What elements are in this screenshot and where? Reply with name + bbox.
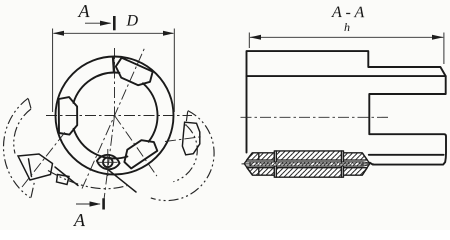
cone nut left upper band [247,153,275,160]
washer right lower band [344,168,368,176]
centerline lug C diagonal [115,116,157,177]
prong step line [369,154,444,156]
centerline through pin to lower tick [103,116,114,207]
phantom segment left inner arc [14,109,31,154]
pin centermark horizontal [98,161,118,163]
h extension right [443,33,445,65]
arrowhead D right [163,31,174,36]
screw core line extensions [246,162,369,166]
cone nut left lower band [247,168,274,176]
pin centermark vertical [107,149,109,176]
dimension line h [250,36,443,38]
pin boss almond lower arc [97,161,120,169]
thread segment lug C (lower right) [124,140,157,168]
bore edge line [247,75,446,77]
screw core [250,162,363,166]
centerline lug A diagonal [82,49,144,189]
centerline vertical (section trace upper) [114,48,116,116]
extension line left [52,29,54,113]
section tick top [113,16,116,30]
section arrow top [85,22,111,24]
phantom segment right inner arc [173,126,197,182]
pin boss almond upper arc [97,155,120,163]
phantom right end line top [186,111,188,126]
screw axis centerline [242,163,375,165]
h extension left [248,33,250,49]
section view centerline [241,116,390,118]
svg-text:A: A [77,1,90,21]
slit cut at top [113,57,114,74]
svg-text:D: D [125,12,138,29]
sleeve lower band [276,168,341,178]
phantom left lug centerline [22,131,66,187]
section body outline [247,51,447,165]
sleeve right face [342,151,344,177]
arrowhead D left [53,31,64,36]
inner bore arc 1 [73,73,119,103]
washer divider left [258,153,260,175]
inner bore arc 2 [74,129,128,159]
svg-text:h: h [344,20,350,34]
thread segment lug B (left) [59,97,77,135]
swing trajectory arc [48,171,130,189]
section arrow bottom [76,203,100,205]
dimension line D [54,32,174,34]
arrowhead h right [432,35,444,40]
cone right tip [362,153,370,175]
washer right upper band [344,153,368,160]
thread segment lug A (upper right) [116,58,153,85]
phantom joint block [57,175,70,185]
phantom right joint edge line [109,170,137,192]
pivot screw circle [103,158,113,168]
sleeve upper band [276,151,341,160]
svg-text:A: A [73,210,86,230]
cone left tip [244,153,252,175]
arrowhead h left [250,35,261,40]
phantom left end stub bottom [31,182,35,198]
phantom segment left outer arc [4,98,31,198]
phantom left lug edge line [55,167,78,186]
outer circle [56,57,174,175]
svg-text:A - A: A - A [331,4,365,21]
phantom left lug [18,154,53,180]
phantom right lug centerline [165,137,203,142]
phantom right lug [182,122,199,155]
phantom left end line top [28,99,31,109]
phantom left lug detail line [29,159,32,177]
centerline horizontal (lug B axis) [46,115,192,117]
sleeve left face [274,151,276,177]
section tick bottom [102,198,105,209]
extension line right [173,29,175,113]
phantom segment right outer arc [151,111,214,201]
inner bore arc 3 [143,83,158,141]
